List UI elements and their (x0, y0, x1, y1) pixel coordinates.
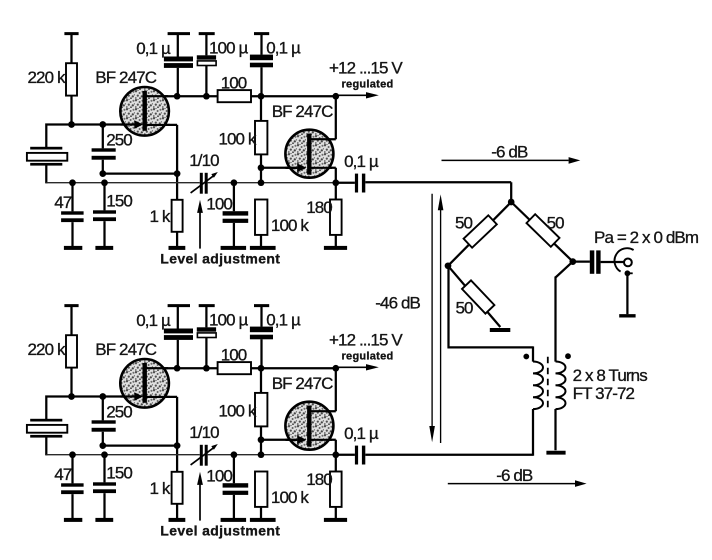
svg-text:2 x 8 Turns: 2 x 8 Turns (573, 366, 648, 385)
svg-text:Pa = 2 x 0 dBm: Pa = 2 x 0 dBm (594, 228, 699, 247)
svg-text:-46 dB: -46 dB (375, 294, 420, 313)
svg-text:50: 50 (455, 213, 473, 232)
svg-text:-6 dB: -6 dB (491, 142, 528, 161)
svg-text:FT 37-72: FT 37-72 (573, 384, 635, 403)
svg-text:50: 50 (547, 213, 565, 232)
svg-text:50: 50 (456, 299, 474, 318)
svg-text:-6 dB: -6 dB (496, 466, 533, 485)
